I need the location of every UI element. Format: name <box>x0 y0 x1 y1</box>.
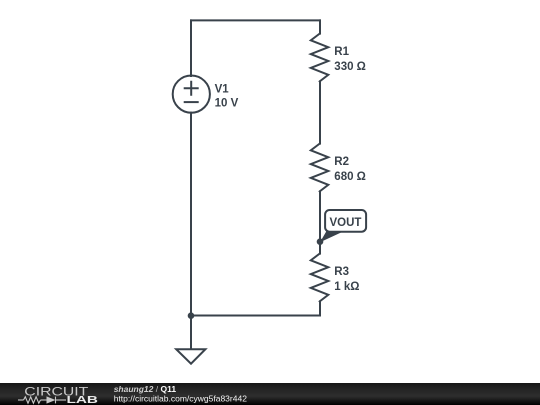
svg-text:http://circuitlab.com/cywg5fa8: http://circuitlab.com/cywg5fa83r442 <box>114 394 248 404</box>
wire R3 bottom to bottom-right corner <box>319 301 321 315</box>
voltage source V1 circle <box>173 76 210 113</box>
svg-text:10 V: 10 V <box>215 97 239 109</box>
ground stem <box>190 316 192 350</box>
svg-text:LAB: LAB <box>67 394 99 405</box>
svg-text:330 Ω: 330 Ω <box>334 61 366 73</box>
wire R2 bottom through node VOUT to R3 top <box>319 191 321 253</box>
footer bar <box>0 383 540 405</box>
VOUT flag tail <box>320 231 344 242</box>
VOUT flag box <box>325 210 366 232</box>
wire bottom horizontal <box>191 315 320 317</box>
svg-text:R3: R3 <box>334 266 349 278</box>
svg-text:680 Ω: 680 Ω <box>334 171 366 183</box>
wire R1 bottom to R2 top <box>319 81 321 143</box>
svg-text:1 kΩ: 1 kΩ <box>334 281 359 293</box>
wire top-right vertical (corner to R1 top) <box>319 20 321 33</box>
footer logo diode triangle <box>47 396 56 403</box>
node VOUT dot <box>317 238 324 245</box>
wire top-left vertical (V1 top to corner) <box>190 20 192 76</box>
svg-text:R1: R1 <box>334 46 349 58</box>
footer logo resistor-diode glyph <box>18 397 66 404</box>
ground triangle <box>176 349 205 364</box>
V1 minus sign <box>185 101 198 103</box>
wire top horizontal <box>191 19 320 21</box>
resistor R3 <box>311 254 329 302</box>
svg-text:VOUT: VOUT <box>330 217 362 229</box>
V1 plus sign <box>185 82 198 95</box>
resistor R1 <box>311 34 329 82</box>
svg-text:shaung12 / Q11: shaung12 / Q11 <box>114 384 177 394</box>
wire V1 bottom to bottom junction <box>190 113 192 316</box>
svg-text:V1: V1 <box>215 83 230 95</box>
node junction dot bottom-left <box>188 312 195 319</box>
resistor R2 <box>311 144 329 192</box>
svg-text:R2: R2 <box>334 156 349 168</box>
